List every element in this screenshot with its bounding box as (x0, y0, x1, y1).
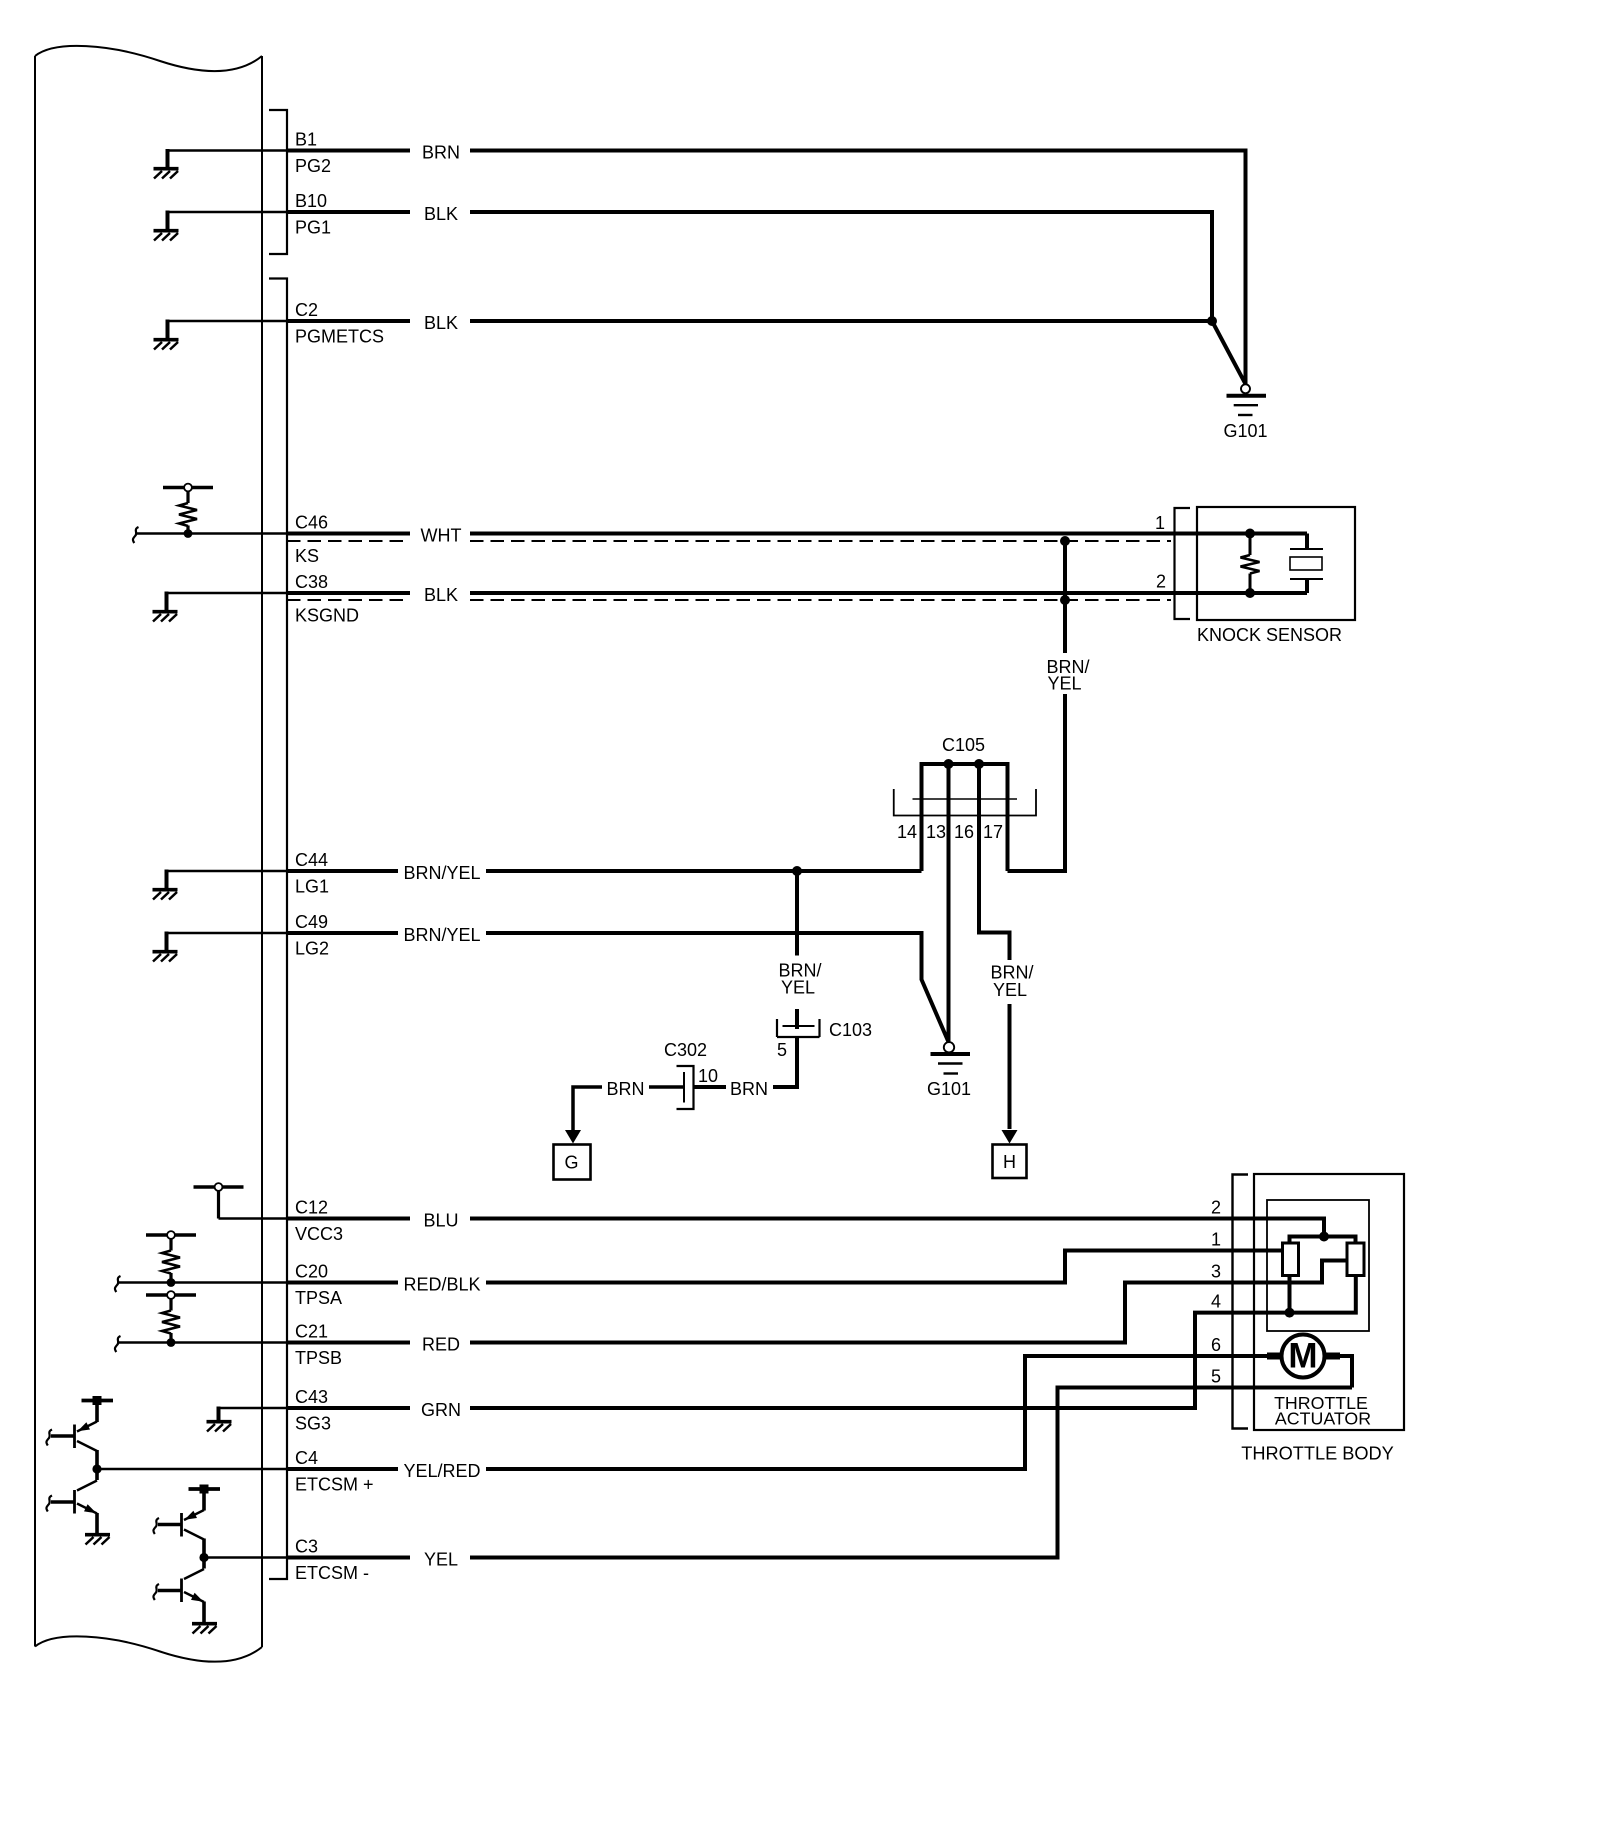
junction Q2 output (199, 1553, 208, 1562)
svg-text:ETCSM +: ETCSM + (295, 1475, 374, 1495)
svg-text:VCC3: VCC3 (295, 1224, 343, 1244)
wire C43 internal (219, 1407, 288, 1410)
shield dashed line lower (287, 599, 1171, 601)
transistor Q2 top body (158, 1510, 204, 1540)
knock sensor internal junction dots (1245, 529, 1255, 539)
shield junction dot upper (1060, 536, 1070, 546)
wire C46 internal (136, 532, 287, 535)
resistor at C20 (169, 1239, 172, 1250)
svg-text:C105: C105 (942, 735, 985, 755)
svg-text:B10: B10 (295, 191, 327, 211)
voltage tap at C21 (146, 1291, 196, 1299)
wire BRN to G box (573, 1087, 602, 1131)
ground at C49 (153, 952, 178, 962)
svg-text:G: G (564, 1153, 578, 1173)
ground at C38 (153, 612, 178, 622)
svg-text:LG2: LG2 (295, 939, 329, 959)
wire BRN/YEL branch to C103 (795, 871, 799, 1029)
svg-text:KSGND: KSGND (295, 606, 359, 626)
junction C44 branch (792, 866, 802, 876)
wire RED/BLK C20 to throttle body pin 1 (287, 1251, 1283, 1283)
svg-text:YEL/RED: YEL/RED (403, 1461, 480, 1481)
wire Q2 output (202, 1539, 206, 1569)
squiggle at C20 (115, 1276, 121, 1292)
svg-text:ACTUATOR: ACTUATOR (1275, 1409, 1371, 1429)
svg-text:4: 4 (1211, 1292, 1221, 1312)
wire YEL C3 to throttle body pin 5 (287, 1388, 1352, 1558)
svg-text:13: 13 (926, 822, 946, 842)
svg-text:1: 1 (1211, 1230, 1221, 1250)
wire BRN/YEL C44 (287, 869, 922, 873)
svg-text:BLU: BLU (423, 1211, 458, 1231)
svg-text:C44: C44 (295, 850, 328, 870)
wire RED C21 to throttle body pin 3 (287, 1261, 1347, 1343)
knock sensor internal resistor (1249, 534, 1252, 556)
svg-text:14: 14 (897, 822, 917, 842)
connector C bracket (269, 279, 287, 1580)
svg-text:H: H (1003, 1152, 1016, 1172)
svg-text:GRN: GRN (421, 1400, 461, 1420)
svg-text:ETCSM -: ETCSM - (295, 1563, 369, 1583)
svg-text:3: 3 (1211, 1262, 1221, 1282)
G reference box (554, 1145, 591, 1180)
junction TPS bottom (1285, 1308, 1295, 1318)
wire B10 internal (168, 211, 288, 214)
squiggle at Q1 top base (46, 1430, 52, 1446)
svg-text:PGMETCS: PGMETCS (295, 327, 384, 347)
wire BLU C12 to throttle body pin 2 (287, 1219, 1324, 1237)
svg-text:C38: C38 (295, 572, 328, 592)
svg-text:RED: RED (422, 1335, 460, 1355)
piezo crystal rect (1290, 557, 1322, 570)
TPS bottom bar (1290, 1276, 1356, 1313)
H reference box (993, 1145, 1027, 1179)
svg-text:C12: C12 (295, 1198, 328, 1218)
shield dashed line upper (287, 540, 1171, 542)
svg-text:BLK: BLK (424, 585, 458, 605)
wire BRN B1 to G101 (287, 151, 1246, 385)
svg-text:WHT: WHT (421, 526, 462, 546)
motor M circle (1282, 1335, 1325, 1378)
junction TPS top (1319, 1232, 1329, 1242)
transistor Q2 top (PNP) collector supply (189, 1485, 221, 1511)
knock sensor box (1197, 507, 1355, 620)
voltage tap at C12 (194, 1183, 244, 1191)
wire Q1 output (95, 1450, 99, 1480)
connector B bracket (269, 110, 287, 254)
wire motor return (1340, 1356, 1352, 1388)
C105 leg pin16 (979, 764, 1010, 1129)
motor left stub (1267, 1353, 1282, 1360)
wire YEL/RED C4 to throttle body pin 6 (287, 1356, 1281, 1469)
arrow into G (565, 1130, 581, 1144)
svg-text:THROTTLE BODY: THROTTLE BODY (1241, 1444, 1394, 1464)
arrow into H (1002, 1130, 1018, 1144)
junction at C20 (167, 1278, 176, 1287)
piezo element connections (1305, 534, 1309, 594)
svg-text:2: 2 (1211, 1198, 1221, 1218)
svg-text:5: 5 (1211, 1367, 1221, 1387)
wire BRN/YEL shield drain (1008, 541, 1066, 871)
C105 leg pin17 (1006, 764, 1010, 871)
svg-text:LG1: LG1 (295, 877, 329, 897)
ground G101 top (1227, 384, 1267, 415)
svg-text:M: M (1288, 1337, 1317, 1376)
TPS top bar (1290, 1237, 1356, 1244)
svg-text:BRN/YEL: BRN/YEL (403, 863, 480, 883)
svg-text:BRN: BRN (422, 143, 460, 163)
throttle body outer box (1254, 1174, 1404, 1430)
wire C2 internal (168, 320, 288, 323)
connector C103 (777, 1019, 820, 1037)
wire diagonal junction to G101 (1212, 321, 1246, 384)
svg-text:PG1: PG1 (295, 218, 331, 238)
wire B1 internal (168, 149, 288, 152)
resistor in ECU at C46 (186, 492, 189, 503)
svg-text:C46: C46 (295, 513, 328, 533)
ECU box (torn top and bottom edges) (35, 46, 262, 1662)
svg-text:B1: B1 (295, 130, 317, 150)
piezo plates (1290, 549, 1323, 579)
svg-text:C49: C49 (295, 912, 328, 932)
svg-text:10: 10 (698, 1066, 718, 1086)
voltage tap at C20 (146, 1231, 196, 1239)
svg-text:1: 1 (1155, 513, 1165, 533)
C105 leg pin13 (947, 764, 951, 1042)
svg-text:C3: C3 (295, 1537, 318, 1557)
wire C49 internal (167, 932, 288, 935)
junction C2/B10 (1207, 316, 1217, 326)
svg-text:G101: G101 (927, 1079, 971, 1099)
svg-text:BRN: BRN (606, 1079, 644, 1099)
svg-text:YEL: YEL (1047, 674, 1081, 694)
C105 terminal row line (913, 798, 1018, 800)
TPS resistor B (1347, 1243, 1364, 1276)
junction at C46 (184, 529, 193, 538)
squiggle at Q2 top base (153, 1518, 159, 1534)
svg-text:KS: KS (295, 546, 319, 566)
squiggle at Q1 bottom base (46, 1496, 52, 1512)
junction Q1 output (92, 1464, 101, 1473)
svg-text:C20: C20 (295, 1262, 328, 1282)
wire C20 internal (118, 1281, 287, 1284)
svg-text:C43: C43 (295, 1387, 328, 1407)
wire WHT C46 to knock sensor (287, 532, 1307, 536)
svg-text:6: 6 (1211, 1335, 1221, 1355)
wire BLK C38 to knock sensor (287, 591, 1307, 595)
svg-text:TPSA: TPSA (295, 1288, 342, 1308)
transistor Q1 top (PNP) collector supply (82, 1396, 114, 1422)
transistor Q1 top body (51, 1422, 97, 1452)
svg-text:KNOCK SENSOR: KNOCK SENSOR (1197, 625, 1342, 645)
wire C4 internal (97, 1468, 287, 1471)
svg-text:BRN: BRN (730, 1079, 768, 1099)
ground at SG3 (207, 1422, 232, 1432)
junction at C21 (167, 1338, 176, 1347)
svg-text:PG2: PG2 (295, 156, 331, 176)
wire BLK C2 (287, 319, 1212, 323)
svg-text:BLK: BLK (424, 313, 458, 333)
resistor at C21 (169, 1299, 172, 1310)
C105 bar junction dots (944, 759, 954, 769)
svg-text:TPSB: TPSB (295, 1348, 342, 1368)
wire Q1 emitter to ground (95, 1513, 99, 1533)
svg-text:BRN/YEL: BRN/YEL (403, 925, 480, 945)
squiggle at C21 (115, 1336, 121, 1352)
squiggle at Q2 bottom base (153, 1584, 159, 1600)
wire Q2 emitter to ground (202, 1602, 206, 1623)
wire GRN C43 to throttle body pin 4 (287, 1313, 1290, 1408)
wire C12 internal (219, 1217, 288, 1220)
svg-text:YEL: YEL (993, 980, 1027, 1000)
svg-text:16: 16 (954, 822, 974, 842)
ground at Q1 (85, 1535, 110, 1545)
svg-text:YEL: YEL (424, 1550, 458, 1570)
svg-text:C21: C21 (295, 1322, 328, 1342)
svg-text:C2: C2 (295, 300, 318, 320)
svg-text:17: 17 (983, 822, 1003, 842)
throttle body connector bracket (1233, 1175, 1249, 1429)
ground at C44 (153, 890, 178, 900)
svg-text:C302: C302 (664, 1040, 707, 1060)
wire BRN C103 down to row (773, 1037, 797, 1087)
shield junction dot lower (1060, 595, 1070, 605)
svg-text:C103: C103 (829, 1020, 872, 1040)
ground at B10 (154, 231, 179, 241)
wire BRN/YEL C49 to G101 (287, 933, 949, 1042)
ground G101 bottom (931, 1042, 971, 1073)
svg-text:RED/BLK: RED/BLK (403, 1275, 480, 1295)
ground at C2 (154, 340, 179, 350)
ground at B1 (154, 169, 179, 179)
connector C302 (677, 1066, 694, 1109)
throttle position sensor inner box (1267, 1200, 1369, 1331)
wire BRN right of C302 (694, 1085, 726, 1089)
svg-text:SG3: SG3 (295, 1414, 331, 1434)
svg-text:2: 2 (1156, 572, 1166, 592)
transistor Q2 bottom (NPN) body (158, 1569, 204, 1602)
svg-text:5: 5 (777, 1040, 787, 1060)
svg-text:C4: C4 (295, 1448, 318, 1468)
C105 housing tray (894, 789, 1036, 816)
connector C105 top bar (920, 762, 1010, 766)
wire C44 internal (167, 870, 288, 873)
svg-text:G101: G101 (1223, 421, 1267, 441)
wire BLK B10 (287, 212, 1212, 321)
pull-up tap at C46 (163, 484, 213, 492)
wire C21 internal (118, 1341, 287, 1344)
motor right stub (1325, 1353, 1341, 1360)
squiggle at C46 wire end (133, 527, 139, 543)
TPS resistor A (1283, 1243, 1299, 1276)
ground at Q2 (192, 1624, 217, 1634)
knock sensor connector bracket (1175, 508, 1191, 619)
wire C3 internal (204, 1556, 287, 1559)
wire C38 internal (167, 592, 288, 595)
wire BRN left of C302 (649, 1085, 684, 1089)
transistor Q1 bottom (NPN) body (51, 1481, 97, 1514)
svg-text:BLK: BLK (424, 204, 458, 224)
C105 leg pin14 (920, 764, 924, 871)
svg-text:YEL: YEL (781, 978, 815, 998)
